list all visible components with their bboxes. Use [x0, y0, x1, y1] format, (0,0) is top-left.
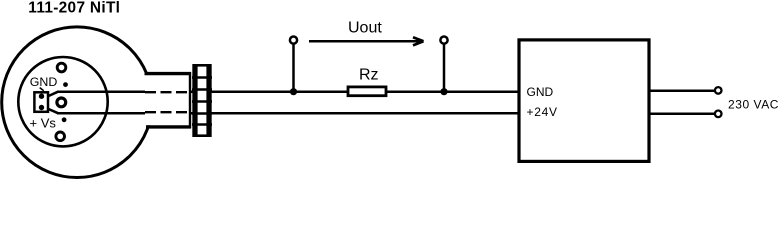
- connector body outer circle: [2, 27, 153, 178]
- junction dot right: [440, 88, 447, 95]
- wire upper (resistor to PSU): [386, 90, 519, 93]
- junction dot left: [290, 88, 297, 95]
- arrow Uout: [309, 37, 424, 45]
- wire lower (inside connector face): [57, 112, 145, 115]
- svg-text:Uout: Uout: [348, 20, 382, 37]
- test terminal right: [440, 37, 447, 44]
- key slot square: [34, 92, 48, 112]
- connector shell bottom edge: [146, 125, 191, 128]
- power supply box U1: [519, 40, 649, 161]
- resistor Rz: [348, 87, 386, 96]
- svg-text:Rz: Rz: [359, 67, 379, 84]
- wire upper (gland to resistor): [190, 90, 348, 93]
- svg-text:+ Vs: + Vs: [30, 116, 57, 131]
- svg-text:GND: GND: [527, 85, 554, 99]
- shell interior mask: [144, 75, 192, 125]
- wire funnel upper diagonal: [49, 92, 59, 96]
- pin top: [57, 63, 66, 72]
- pin bottom: [56, 132, 65, 141]
- connector face inner circle: [18, 57, 107, 146]
- marker dot near GND: [63, 82, 68, 87]
- contact dot lower in square: [39, 105, 44, 110]
- mains wire upper: [649, 89, 714, 92]
- contact dot upper in square: [39, 94, 44, 99]
- mains terminal lower: [715, 111, 722, 118]
- wire lower (gland to PSU): [190, 112, 519, 115]
- hidden wire dashed lower: [145, 111, 190, 113]
- svg-text:GND: GND: [30, 75, 58, 89]
- test point stub right: [443, 44, 446, 92]
- GND leader tick: [40, 88, 44, 91]
- svg-text:230 VAC: 230 VAC: [728, 98, 779, 112]
- mains wire lower: [649, 112, 714, 115]
- mains terminal upper: [715, 87, 722, 94]
- svg-text:111-207 NiTl: 111-207 NiTl: [28, 0, 120, 16]
- connector shell right edge: [189, 72, 191, 128]
- test terminal left: [290, 37, 297, 44]
- svg-text:+24V: +24V: [527, 105, 558, 119]
- marker dot near Vs: [62, 117, 67, 122]
- hidden wire dashed upper: [145, 91, 190, 93]
- test point stub left: [292, 44, 295, 92]
- connector shell top edge: [145, 72, 192, 75]
- pin center: [57, 98, 66, 107]
- wire upper (inside connector face): [57, 90, 145, 93]
- wire funnel lower diagonal: [49, 109, 59, 113]
- cable gland ladder block: [192, 64, 212, 137]
